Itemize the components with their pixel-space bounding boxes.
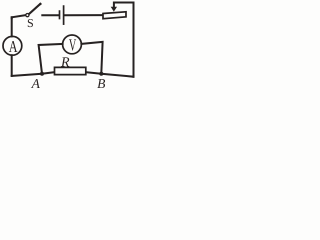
svg-text:A: A — [9, 37, 18, 56]
svg-text:R: R — [60, 55, 70, 70]
svg-text:B: B — [97, 76, 105, 89]
svg-text:A: A — [31, 76, 41, 89]
svg-text:V: V — [69, 35, 77, 54]
svg-text:S: S — [27, 16, 34, 30]
